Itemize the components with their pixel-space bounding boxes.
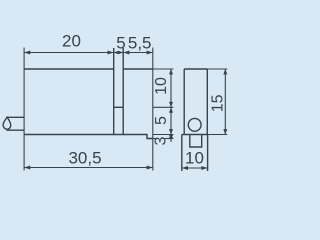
foot bottom extension line y138.5 right part [165, 138, 173, 140]
arrow 5v top [169, 107, 173, 112]
arrow side10 left [182, 166, 188, 170]
side view base top line [182, 134, 208, 136]
svg-text:20: 20 [62, 32, 81, 51]
svg-text:10: 10 [185, 149, 204, 168]
arrow 5 left [114, 51, 119, 54]
arrow 5v bottom [169, 129, 173, 134]
svg-text:10: 10 [153, 77, 170, 95]
svg-text:5: 5 [116, 34, 125, 53]
slot left wall [113, 48, 115, 135]
front right edge + extension lines [152, 48, 154, 171]
side view 15 top extension [207, 68, 227, 70]
bottom dimension line 30,5 [24, 167, 153, 169]
terminal top line [7, 116, 24, 118]
top dimension line [24, 52, 153, 54]
arrow 3 top [169, 135, 173, 139]
arrow 3 bottom [169, 135, 173, 139]
right stack extension line y69 [153, 68, 174, 70]
side view body [184, 69, 207, 135]
terminal bottom line [7, 129, 25, 131]
right stack extension line y107.3 [153, 106, 174, 108]
foot bottom extension line y138.5 left part [147, 138, 156, 140]
arrow 5 right [118, 51, 123, 54]
svg-text:5: 5 [153, 116, 170, 125]
arrow side10 right [201, 166, 207, 170]
side view base left edge [181, 135, 183, 172]
svg-text:15: 15 [210, 94, 227, 112]
right stack dimension line x171 [170, 69, 172, 142]
slot floor [114, 106, 124, 108]
arrow 10 top [169, 69, 173, 74]
side view terminal square [190, 135, 202, 148]
arrow 15 top [223, 69, 227, 74]
front view body top edge right part [123, 68, 153, 70]
slot right wall [122, 48, 124, 135]
svg-text:3: 3 [153, 136, 170, 145]
arrow 30,5 right [147, 166, 153, 170]
arrow 15 bottom [223, 129, 227, 134]
arrow 5,5 right [147, 51, 153, 55]
arrow 20 right [108, 51, 114, 55]
side view mounting hole circle [188, 118, 201, 131]
side view 15 bottom extension [208, 134, 228, 136]
arrow 20 left [24, 51, 30, 55]
right stack extension line y134.5 [153, 134, 174, 136]
front left edge + extension lines [23, 48, 25, 171]
arrow 30,5 left [24, 166, 30, 170]
arrow 5,5 left [123, 51, 129, 55]
side view 15 dimension line [224, 69, 226, 135]
side view bottom dimension line 10 [182, 167, 208, 169]
svg-text:30,5: 30,5 [68, 149, 101, 168]
arrow 10 bottom [169, 102, 173, 107]
side view base right edge [207, 135, 209, 172]
svg-text:5,5: 5,5 [128, 34, 152, 53]
front view body bottom edge with foot step [24, 135, 153, 139]
front view body top edge left part [24, 68, 114, 70]
terminal loop [3, 117, 11, 129]
